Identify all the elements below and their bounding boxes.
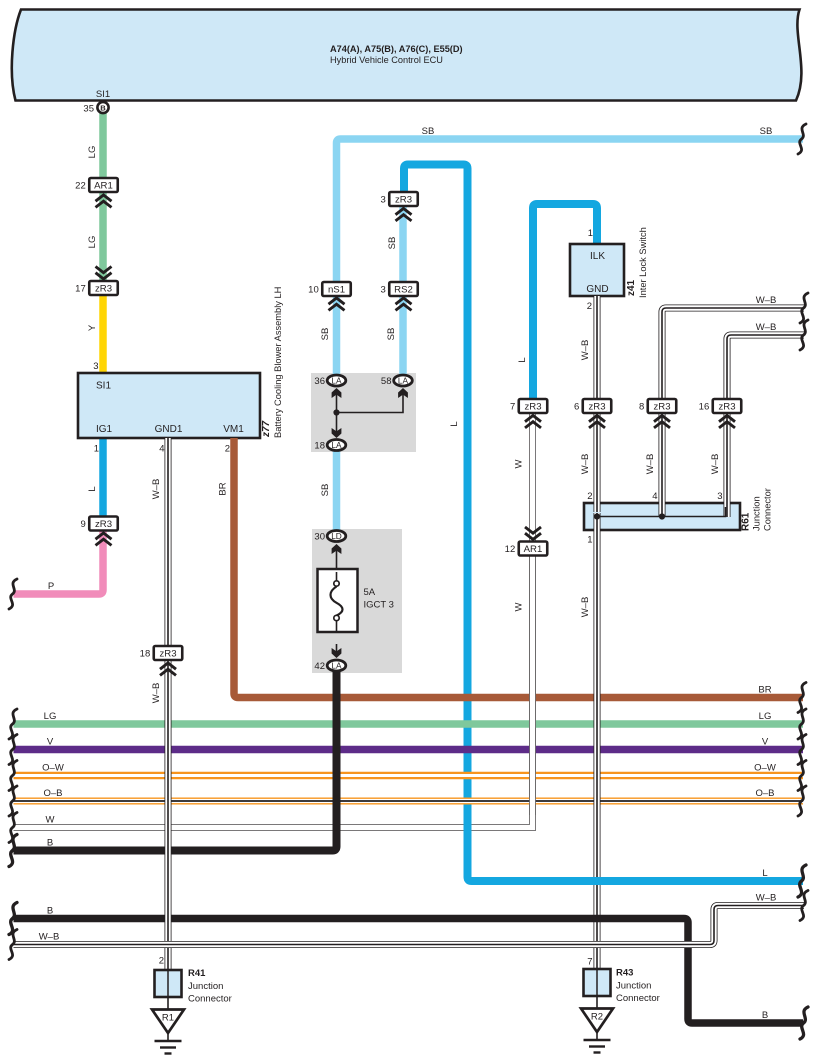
component z41 Inter Lock Switch box [570, 244, 624, 296]
svg-text:SB: SB [320, 328, 331, 341]
label R61 Connector [763, 488, 773, 531]
svg-text:W–B: W–B [151, 479, 162, 500]
svg-text:R2: R2 [591, 1012, 603, 1023]
svg-text:LG: LG [87, 146, 98, 159]
svg-text:W–B: W–B [580, 340, 591, 361]
label LG lower [87, 236, 98, 249]
svg-text:Junction: Junction [752, 496, 762, 531]
svg-text:zR3: zR3 [395, 195, 412, 206]
wire SB bus (top horizontal with drop to nS1) [337, 139, 804, 282]
svg-text:L: L [762, 868, 767, 879]
svg-text:58: 58 [381, 376, 392, 387]
wire BR bus (SI1 pin VM1 to right break) [234, 438, 803, 698]
chevron below zR3-3 [396, 209, 412, 221]
wire LG (AR1 to zR3) [99, 192, 107, 281]
svg-text:SB: SB [320, 484, 331, 497]
svg-text:W–B: W–B [756, 322, 777, 333]
label SB (zR3 to RS2) [387, 237, 398, 250]
ECU A74(A)/A75(B)/A76(C)/E55(D) Hybrid Vehicle Control ECU box [12, 10, 802, 101]
svg-text:z77: z77 [261, 420, 272, 438]
wire W-B (right break to zR3-8) [662, 308, 804, 399]
R61 internal bus line [597, 507, 726, 517]
svg-text:6: 6 [574, 402, 579, 413]
break W-B right bottom [800, 891, 808, 921]
arrow into 30 LD [332, 544, 342, 554]
R61 junction dot pin4 [659, 513, 665, 519]
connector 10 nS1 [308, 282, 351, 296]
fuse 5A IGCT 3 [318, 569, 394, 632]
svg-text:18: 18 [314, 441, 325, 452]
break V left [9, 735, 17, 765]
svg-text:z41: z41 [626, 279, 637, 296]
arrow into 36 LA [332, 388, 342, 398]
label W-B right 2 [756, 322, 777, 333]
wire W-B (right break to zR3-16) [727, 335, 804, 399]
svg-text:V: V [47, 737, 54, 748]
chevron above zR3-17 [96, 267, 112, 279]
svg-text:W–B: W–B [756, 295, 777, 306]
svg-text:Connector: Connector [616, 993, 660, 1004]
label W-B (R61 pin1 wire) [580, 597, 591, 618]
svg-text:Junction: Junction [616, 981, 651, 992]
break O-B right [798, 786, 806, 816]
svg-text:7: 7 [510, 402, 515, 413]
label L (z41 branch) [517, 357, 528, 362]
svg-text:Inter Lock Switch: Inter Lock Switch [638, 227, 648, 298]
svg-text:2: 2 [159, 956, 164, 967]
label W-B (below zR3-6) [580, 454, 591, 475]
pin 2 of z41 [587, 301, 592, 312]
wire W-B (R61 pin 1 to R43 pin 7) [594, 513, 601, 970]
svg-text:zR3: zR3 [95, 519, 112, 530]
svg-text:P: P [48, 581, 54, 592]
bus labels right [754, 685, 776, 1022]
wire SB (nS1 to pin 36 LA) [333, 296, 341, 375]
label P [48, 581, 54, 592]
svg-text:GND: GND [586, 284, 608, 295]
pin number 3 of SI1 [93, 361, 98, 372]
svg-text:1: 1 [94, 444, 99, 455]
svg-text:R1: R1 [162, 1013, 174, 1024]
svg-text:2: 2 [225, 444, 230, 455]
label Battery Cooling Blower Assembly LH [273, 287, 283, 438]
svg-text:A74(A), A75(B), A76(C), E55(D): A74(A), A75(B), A76(C), E55(D) [330, 44, 463, 54]
wire V bus (left break to right break) [14, 746, 804, 754]
svg-text:2: 2 [587, 301, 592, 312]
svg-text:30: 30 [314, 532, 325, 543]
bus labels left [39, 711, 64, 943]
svg-text:3: 3 [93, 361, 98, 372]
pin 1 of z41 [588, 228, 593, 239]
break W-B left [9, 930, 17, 960]
break B left [9, 835, 17, 867]
svg-text:2: 2 [587, 491, 592, 502]
wire L bus (corner to right break) [468, 870, 804, 881]
svg-text:Connector: Connector [188, 994, 232, 1005]
svg-text:AR1: AR1 [524, 544, 543, 555]
pin numbers 1 4 2 of z77 [94, 444, 230, 455]
break O-W right [798, 761, 806, 791]
connector 8 zR3 [639, 399, 676, 413]
wire W-B (zR3-8 to R61 pin 4) [659, 413, 666, 517]
break BR right [798, 683, 806, 713]
svg-text:O–W: O–W [754, 763, 776, 774]
wire W bus (left break up to AR1-12, under colored buses) [14, 556, 533, 828]
connector 3 RS2 [380, 282, 417, 296]
svg-text:SB: SB [387, 237, 398, 250]
wire LG bus (left break to right break) [14, 720, 804, 728]
chevron below zR3-16 [719, 416, 735, 428]
svg-text:V: V [762, 737, 769, 748]
svg-text:VM1: VM1 [223, 424, 244, 435]
label W-B (z41 GND wire) [580, 340, 591, 361]
wire W-B (SI1 pin GND1 to R41 pin 2) [165, 438, 172, 971]
break O-W left [9, 761, 17, 791]
label SB above 36LA [320, 328, 331, 341]
wire O-B bus (left break to right break) [14, 798, 804, 805]
svg-text:22: 22 [75, 181, 86, 192]
label L blue vertical [449, 421, 460, 426]
label R61 Junction [752, 496, 762, 531]
chevron above AR1-12 [525, 527, 541, 539]
wire W-B (Inter Lock Switch GND to zR3-6) [594, 296, 601, 399]
earth ground symbol R1 [155, 1033, 182, 1054]
svg-text:R61: R61 [741, 512, 752, 531]
svg-text:3: 3 [717, 491, 722, 502]
svg-text:4: 4 [159, 444, 164, 455]
svg-text:1: 1 [587, 535, 592, 546]
chevron below zR3-6 [589, 416, 605, 428]
connector 12 AR1 [505, 542, 548, 556]
connector 17 zR3 [75, 281, 118, 295]
pin 35 B of ECU [83, 89, 110, 115]
break LG right [798, 709, 806, 739]
svg-text:W–B: W–B [151, 683, 162, 704]
svg-text:B: B [47, 838, 53, 849]
svg-text:O–B: O–B [43, 788, 62, 799]
wire SB (RS2 to pin 58 LA) [399, 296, 407, 375]
svg-text:Hybrid Vehicle Control ECU: Hybrid Vehicle Control ECU [330, 55, 443, 65]
svg-text:B: B [762, 1010, 768, 1021]
chevron below nS1-10 [329, 298, 345, 310]
svg-text:18: 18 [140, 649, 151, 660]
chevron below RS2-3 [396, 298, 412, 310]
svg-text:SB: SB [422, 126, 435, 137]
svg-text:W–B: W–B [645, 454, 656, 475]
label Inter Lock Switch [638, 227, 648, 298]
break W-B right 2 [800, 320, 808, 350]
svg-text:W: W [514, 459, 525, 468]
arrow into 42 LA [332, 648, 342, 658]
svg-text:SI1: SI1 [96, 89, 110, 100]
connector 6 zR3 [574, 399, 611, 413]
label SB below 18LA [320, 484, 331, 497]
break O-B left [9, 786, 17, 816]
svg-text:BR: BR [758, 685, 771, 696]
svg-text:36: 36 [314, 376, 325, 387]
wire L (SI1 pin IG1 to zR3) [99, 438, 107, 517]
wire LG (pin 35 to connector AR1) [99, 112, 107, 178]
wire W-B (zR3-16 to R61 pin 3) [724, 413, 731, 517]
svg-text:9: 9 [80, 519, 85, 530]
break W left [9, 813, 17, 843]
svg-text:zR3: zR3 [524, 402, 541, 413]
svg-text:16: 16 [699, 402, 710, 413]
svg-text:Battery Cooling Blower Assembl: Battery Cooling Blower Assembly LH [273, 287, 283, 438]
label BR vertical [218, 482, 229, 495]
svg-text:42: 42 [314, 661, 325, 672]
component z77 Battery Cooling Blower Assembly LH box SI1 [78, 373, 260, 438]
break W-B right 1 [800, 293, 808, 323]
svg-text:O–W: O–W [42, 763, 64, 774]
svg-text:1: 1 [588, 228, 593, 239]
svg-text:10: 10 [308, 285, 319, 296]
break B right bottom [800, 1007, 808, 1039]
junction connector R41 [155, 956, 232, 1005]
gray block (fuse IGCT3 group) [312, 529, 402, 673]
R61 pin numbers [587, 491, 722, 546]
svg-text:B: B [47, 906, 53, 917]
pin 18 LA [314, 440, 345, 452]
break B2 left [9, 903, 17, 935]
svg-text:LA: LA [331, 440, 342, 450]
wire P (zR3 to left break) [14, 530, 104, 594]
wire W-B bus (left break to right break) [14, 906, 805, 945]
svg-text:Connector: Connector [763, 488, 773, 531]
break P left [9, 579, 17, 609]
junction dot at 36LA branch [333, 409, 339, 415]
svg-text:zR3: zR3 [95, 284, 112, 295]
wire B (pin 42 LA down to left break) [14, 670, 337, 851]
ground triangle R1 [152, 997, 184, 1033]
label W (below zR3-7) [514, 459, 525, 468]
wire W (zR3-7 to AR1-12) [529, 413, 536, 542]
label W-B (GND1 wire lower) [151, 683, 162, 704]
connector 16 zR3 [699, 399, 742, 413]
svg-text:BR: BR [218, 482, 229, 495]
connector 7 zR3 [510, 399, 547, 413]
svg-text:W–B: W–B [39, 932, 60, 943]
svg-text:R43: R43 [616, 968, 633, 979]
chevron below zR3-7 [525, 416, 541, 428]
label LG upper [87, 146, 98, 159]
pin 42 LA [314, 660, 345, 672]
connector 18 zR3 [140, 646, 183, 660]
wire SB (zR3 to RS2) [399, 206, 407, 282]
svg-text:RS2: RS2 [394, 285, 413, 296]
chevron below AR1-22 [96, 195, 112, 207]
svg-text:LD: LD [331, 531, 342, 541]
label W-B (GND1 wire upper) [151, 479, 162, 500]
arrow into 58 LA [398, 388, 408, 398]
svg-text:12: 12 [505, 544, 516, 555]
wire L (connector zR3-7 to Inter Lock Switch pin 1) [533, 204, 597, 399]
svg-text:5A: 5A [364, 587, 376, 598]
svg-text:Junction: Junction [188, 981, 223, 992]
svg-text:LG: LG [759, 711, 772, 722]
arrow into 18 LA [332, 428, 342, 438]
svg-text:SB: SB [386, 328, 397, 341]
svg-text:W–B: W–B [710, 454, 721, 475]
earth ground symbol R2 [584, 1032, 611, 1053]
svg-text:L: L [449, 421, 460, 426]
label SB bus top right [760, 126, 773, 137]
svg-text:W: W [46, 815, 55, 826]
label W-B (below zR3-8) [645, 454, 656, 475]
connector 3 zR3 middle [380, 192, 417, 206]
chevron below zR3-8 [654, 416, 670, 428]
label z77 [261, 420, 272, 438]
R61 junction dot pin2 [594, 513, 600, 519]
connector 9 zR3 [80, 517, 117, 531]
label W (below AR1-12) [514, 602, 525, 611]
wire L (connector zR3-3 riser and long vertical) [404, 165, 468, 878]
wire Y (zR3 to SI1 pin3) [99, 294, 107, 373]
break SB right [798, 124, 806, 154]
svg-text:AR1: AR1 [94, 181, 113, 192]
chevron below zR3-18 [160, 663, 176, 675]
svg-text:W–B: W–B [756, 893, 777, 904]
break LG left [9, 709, 17, 739]
svg-text:W–B: W–B [580, 597, 591, 618]
label Y [87, 324, 98, 331]
label SB above 58LA [386, 328, 397, 341]
svg-text:IG1: IG1 [96, 424, 113, 435]
svg-text:zR3: zR3 [718, 402, 735, 413]
label SB bus top [422, 126, 435, 137]
svg-text:L: L [87, 486, 98, 491]
wire O-W bus (left break to right break) [14, 772, 804, 779]
pin 58 LA [381, 375, 412, 387]
svg-text:W–B: W–B [580, 454, 591, 475]
wire W-B (zR3-6 to R61 pin 2) [594, 413, 601, 512]
label R61 [741, 512, 752, 531]
pin 36 LA [314, 375, 345, 387]
label W-B (below zR3-16) [710, 454, 721, 475]
svg-text:GND1: GND1 [155, 424, 183, 435]
svg-text:LG: LG [87, 236, 98, 249]
label L left [87, 486, 98, 491]
svg-text:SI1: SI1 [96, 381, 111, 392]
svg-text:8: 8 [639, 402, 644, 413]
chevron below zR3-9 [96, 533, 112, 545]
svg-text:IGCT 3: IGCT 3 [364, 600, 394, 611]
svg-text:zR3: zR3 [653, 402, 670, 413]
svg-text:LA: LA [331, 661, 342, 671]
svg-text:7: 7 [587, 957, 592, 968]
svg-text:ILK: ILK [590, 251, 605, 262]
connector 22 AR1 [75, 178, 118, 192]
svg-text:nS1: nS1 [328, 285, 345, 296]
label z41 [626, 279, 637, 296]
svg-text:zR3: zR3 [159, 649, 176, 660]
break L right [798, 865, 806, 897]
svg-text:LG: LG [44, 711, 57, 722]
ground triangle R2 [581, 996, 613, 1032]
svg-text:zR3: zR3 [588, 402, 605, 413]
label W-B right 1 [756, 295, 777, 306]
junction wire (36LA to 18LA with branch to 58LA) [337, 390, 404, 436]
svg-text:R41: R41 [188, 968, 206, 979]
svg-text:LA: LA [331, 376, 342, 386]
svg-text:4: 4 [652, 491, 657, 502]
svg-text:L: L [517, 357, 528, 362]
svg-text:3: 3 [380, 285, 385, 296]
svg-text:O–B: O–B [755, 788, 774, 799]
svg-text:35: 35 [83, 104, 94, 115]
svg-text:B: B [100, 104, 106, 113]
wire B bus (left break to bottom right break) [14, 919, 804, 1024]
pin 30 LD [314, 531, 345, 543]
svg-text:Y: Y [87, 324, 98, 331]
svg-text:17: 17 [75, 284, 86, 295]
junction connector R61 box [584, 503, 740, 530]
svg-text:3: 3 [380, 195, 385, 206]
wire SB (pin 18 LA to pin 30 LD) [333, 450, 341, 531]
svg-text:SB: SB [760, 126, 773, 137]
break V right [798, 735, 806, 765]
junction connector R43 [584, 957, 660, 1005]
svg-text:W: W [514, 602, 525, 611]
fuse connection line [336, 549, 338, 652]
gray block (junction connector LA group) [311, 373, 416, 452]
wire W (AR1-12 down to W bus corner, over buses) [529, 556, 536, 815]
svg-text:LA: LA [398, 376, 409, 386]
